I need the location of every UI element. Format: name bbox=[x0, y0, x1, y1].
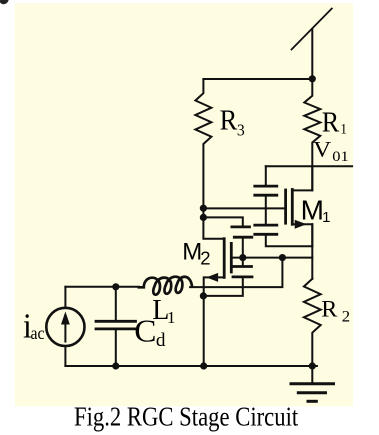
svg-text:M: M bbox=[301, 194, 324, 225]
node supply dot bbox=[309, 75, 316, 82]
wire input jog bbox=[190, 258, 282, 288]
wire Cgd1 to gate node bbox=[265, 195, 267, 208]
wire V01 to Cgd1 bbox=[265, 166, 267, 186]
wire node B to Cgd2 bbox=[203, 217, 242, 227]
wire M1 gate lead bbox=[203, 207, 285, 209]
node rail dot Cd bbox=[112, 362, 119, 369]
node Cd top dot bbox=[112, 283, 119, 290]
wire V01 output bbox=[266, 165, 352, 167]
svg-text:M: M bbox=[182, 238, 202, 265]
svg-text:2: 2 bbox=[200, 247, 210, 268]
label V01 bbox=[313, 138, 349, 165]
capacitor Cgs1 of M1 bbox=[255, 224, 277, 227]
wire M2 gate to Cgs2 bbox=[242, 258, 244, 267]
wire M2 source to ground bbox=[203, 296, 205, 366]
svg-text:Fig.2 RGC Stage Circuit: Fig.2 RGC Stage Circuit bbox=[74, 403, 298, 432]
node rail dot M2 source bbox=[200, 362, 207, 369]
svg-text:1: 1 bbox=[340, 121, 347, 138]
svg-text:C: C bbox=[134, 314, 156, 349]
svg-text:R: R bbox=[322, 105, 340, 138]
svg-text:01: 01 bbox=[332, 149, 348, 165]
inductor L1 bbox=[139, 277, 192, 295]
svg-text:2: 2 bbox=[342, 307, 350, 326]
label R2 bbox=[321, 297, 350, 325]
label Cd bbox=[134, 314, 166, 351]
svg-text:R: R bbox=[220, 104, 238, 136]
node A dot bbox=[200, 205, 207, 212]
svg-text:1: 1 bbox=[322, 209, 330, 226]
transistor M2 bbox=[203, 208, 224, 239]
capacitor Cd bbox=[115, 287, 117, 322]
capacitor Cgs2 of M2 bbox=[233, 265, 252, 268]
label M2 bbox=[182, 238, 210, 268]
stray corner mark bbox=[0, 0, 9, 4]
node B dot bbox=[200, 214, 207, 221]
label R3 bbox=[220, 104, 245, 140]
label i_ac bbox=[23, 307, 45, 346]
supply stub wire bbox=[311, 29, 313, 79]
label R1 bbox=[322, 105, 347, 138]
current source i_ac bbox=[46, 308, 84, 346]
svg-text:R: R bbox=[321, 297, 337, 322]
node M2 gate dot bbox=[239, 254, 246, 261]
svg-text:3: 3 bbox=[237, 120, 245, 140]
wire M2 gate lead / input node bbox=[231, 257, 312, 259]
svg-text:1: 1 bbox=[167, 308, 176, 327]
label L1 bbox=[152, 295, 175, 327]
ground bbox=[311, 366, 313, 384]
capacitor Cgd2 of M2 bbox=[232, 225, 250, 228]
resistor R3 bbox=[195, 79, 211, 208]
node input dot bbox=[279, 254, 286, 261]
wire M1 source down to R2 bbox=[311, 224, 313, 279]
wire ground rail bbox=[65, 365, 317, 367]
node rail dot R2 bbox=[309, 362, 316, 369]
svg-text:d: d bbox=[156, 331, 166, 352]
resistor R1 bbox=[304, 79, 320, 191]
wire gate node to Cgs1 bbox=[265, 208, 267, 225]
caption bbox=[74, 403, 298, 432]
svg-text:V: V bbox=[313, 138, 331, 163]
svg-text:ac: ac bbox=[31, 323, 45, 343]
supply slash bbox=[292, 9, 332, 50]
wire Cgs1 to source bbox=[266, 234, 313, 246]
transistor M1 bbox=[284, 190, 287, 223]
wire supply rail to R3 bbox=[203, 78, 312, 80]
capacitor Cgd1 of M1 bbox=[255, 185, 277, 188]
wire Cgs2 to M2 source bbox=[203, 277, 242, 296]
label M1 bbox=[301, 194, 331, 226]
resistor R2 bbox=[304, 279, 321, 366]
wire input line bbox=[65, 286, 138, 288]
node M2 source dot bbox=[200, 292, 207, 299]
wire Cgd2 to M2 gate bbox=[242, 237, 244, 257]
